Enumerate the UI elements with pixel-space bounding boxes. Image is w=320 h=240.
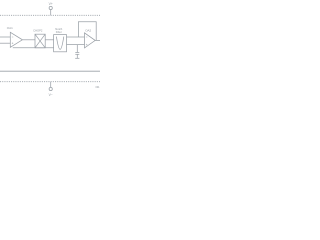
node V+ terminal [49, 6, 52, 9]
svg-text:V+: V+ [49, 2, 53, 6]
wire filter to OA2 lower [67, 44, 85, 46]
svg-text:OA2: OA2 [85, 29, 91, 33]
op-amp OA1 [10, 32, 22, 47]
wire chopper to filter [45, 39, 53, 41]
wire V- to boundary [50, 82, 52, 88]
wire input + [0, 36, 10, 38]
capacitor stem [76, 45, 78, 53]
op-amp OA2 [85, 33, 96, 48]
svg-text:OA1: OA1 [7, 26, 13, 30]
dashed package boundary top [0, 14, 100, 16]
op-amp OA1 input polarity marks [12, 36, 14, 38]
svg-text:V−: V− [49, 93, 53, 97]
svg-text:001: 001 [96, 86, 101, 89]
capacitor plates [75, 52, 79, 54]
ground [76, 54, 78, 58]
wire V+ to boundary [50, 10, 52, 16]
dashed package boundary bottom [0, 81, 100, 83]
node V- terminal [49, 87, 52, 90]
wire output [95, 39, 100, 41]
chopper CHOP2 box [35, 34, 45, 48]
svg-text:Filter: Filter [56, 30, 62, 34]
wire OA1 out [22, 39, 35, 41]
wire input - [0, 42, 10, 44]
wire V- rail [0, 70, 100, 72]
op-amp OA2 input polarity marks [86, 36, 88, 38]
notch filter box [54, 35, 67, 52]
wire filter to OA2 upper [67, 36, 85, 38]
wire lower bus [13, 47, 54, 49]
wire feedback loop [78, 22, 96, 41]
svg-text:CHOP2: CHOP2 [33, 29, 43, 33]
